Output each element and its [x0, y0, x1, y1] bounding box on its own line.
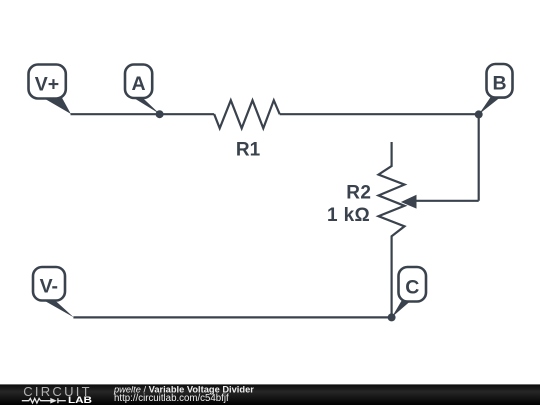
wire top (R1 right to node B): [280, 113, 479, 115]
svg-text:R1: R1: [236, 139, 261, 160]
svg-text:A: A: [132, 73, 146, 95]
potentiometer R2: [379, 142, 405, 317]
node V- label: [33, 267, 74, 317]
node A label: [125, 65, 160, 114]
node C junction dot: [388, 313, 396, 321]
svg-text:R2: R2: [346, 182, 371, 203]
resistor R1: [214, 100, 280, 128]
node B label: [479, 64, 513, 114]
potentiometer wiper arrow: [401, 195, 417, 209]
svg-text:LAB: LAB: [68, 395, 92, 405]
svg-text:B: B: [492, 73, 506, 95]
svg-text:1 kΩ: 1 kΩ: [327, 205, 370, 226]
node B junction dot: [475, 110, 483, 118]
wire top (V+ to R1 left): [71, 113, 215, 115]
wire wiper horizontal: [415, 200, 479, 202]
wire node B down: [478, 114, 480, 200]
svg-text:http://circuitlab.com/c54bfjf: http://circuitlab.com/c54bfjf: [114, 393, 229, 404]
CircuitLab logo squiggle (resistor + diode): [22, 398, 66, 403]
node V+ label: [29, 65, 71, 114]
svg-text:V+: V+: [35, 74, 59, 96]
svg-text:C: C: [405, 277, 419, 299]
svg-text:V-: V-: [40, 276, 58, 298]
wire bottom (V- to node C): [73, 316, 391, 318]
node C label: [392, 267, 426, 317]
node A junction dot: [156, 110, 164, 118]
